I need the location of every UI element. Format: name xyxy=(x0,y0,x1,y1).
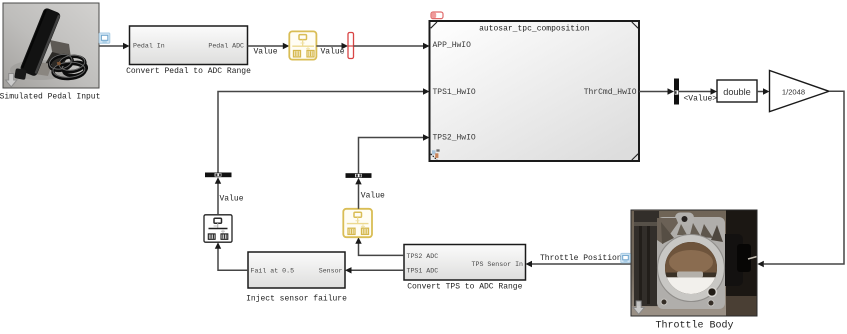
subsystem: Convert Pedal to ADC Range xyxy=(126,26,251,76)
svg-text:Value: Value xyxy=(361,191,385,200)
svg-text:1/2048: 1/2048 xyxy=(782,87,805,96)
wire: white adapter to bus creator 1 xyxy=(215,177,221,215)
svg-text:ThrCmd_HwIO: ThrCmd_HwIO xyxy=(584,88,637,97)
wire: Inject output to white adapter xyxy=(215,242,248,270)
bus creator 2 (horizontal bar) xyxy=(346,173,372,178)
wire: adapter to signal spec xyxy=(316,43,348,49)
svg-text:Pedal ADC: Pedal ADC xyxy=(208,42,244,49)
wire: Convert Pedal to adapter xyxy=(248,43,290,49)
wire: bus selector to double xyxy=(679,88,717,94)
svg-text:Value: Value xyxy=(321,48,345,57)
svg-text:TPS Sensor In: TPS Sensor In xyxy=(472,261,523,268)
wire: signal spec to APP_HwIO xyxy=(354,43,430,49)
wire: bus creator 2 to TPS2_HwIO xyxy=(359,134,430,173)
wire: pedal to Convert Pedal xyxy=(99,43,130,49)
svg-text:Fail at 0.5: Fail at 0.5 xyxy=(251,268,295,275)
wire: gain to throttle body xyxy=(757,91,844,267)
svg-text:Value: Value xyxy=(220,194,244,203)
svg-text:double: double xyxy=(723,87,751,97)
logging badge on pedal wire xyxy=(99,33,110,43)
throttle body photo block xyxy=(631,210,757,316)
svg-text:Value: Value xyxy=(254,48,278,57)
corner fold bottom-right xyxy=(632,154,638,160)
svg-text:TPS2_HwIO: TPS2_HwIO xyxy=(433,134,476,143)
adapter block (yellow) 2 xyxy=(343,209,372,237)
pedal photo block: Simulated Pedal Input xyxy=(3,3,99,88)
svg-text:TPS2 ADC: TPS2 ADC xyxy=(407,253,439,260)
adapter block (yellow) 1 xyxy=(289,31,316,59)
red breakpoint badge above model block xyxy=(431,12,443,19)
svg-text:Throttle Body: Throttle Body xyxy=(655,320,733,332)
model block: autosar_tpc_composition xyxy=(430,21,640,161)
subsystem: Inject sensor failure xyxy=(246,252,347,303)
svg-text:Convert Pedal to ADC Range: Convert Pedal to ADC Range xyxy=(126,67,251,76)
corner fold bottom-left (dashed) xyxy=(431,154,437,160)
gray arrow badge (pedal) xyxy=(6,74,17,87)
wire: TPS2 ADC to adapter 2 xyxy=(355,237,404,255)
svg-text:Inject sensor failure: Inject sensor failure xyxy=(246,294,347,303)
svg-text:Throttle Position: Throttle Position xyxy=(540,254,622,263)
wire: ThrCmd_HwIO to bus selector xyxy=(639,88,674,94)
svg-text:Pedal In: Pedal In xyxy=(133,42,165,49)
svg-text:autosar_tpc_composition: autosar_tpc_composition xyxy=(479,25,590,34)
bus creator 1 (horizontal bar) xyxy=(205,173,232,178)
svg-text:Sensor: Sensor xyxy=(319,268,343,275)
wire: throttle body to Convert TPS xyxy=(526,261,632,267)
svg-text:TPS1_HwIO: TPS1_HwIO xyxy=(433,88,476,97)
wire: TPS1 ADC to Inject sensor failure xyxy=(345,267,404,273)
corner fold top-left xyxy=(431,22,437,28)
bus selector bar xyxy=(674,79,679,105)
data type conversion block: double xyxy=(717,80,757,102)
svg-text:TPS1 ADC: TPS1 ADC xyxy=(407,268,439,275)
svg-text:APP_HwIO: APP_HwIO xyxy=(433,41,472,50)
logging badge on throttle wire xyxy=(621,253,630,262)
signal specification (red capsule) xyxy=(348,33,354,59)
tiny corner badge xyxy=(432,150,436,154)
gray arrow badge (throttle) xyxy=(633,301,644,314)
adapter block (white) xyxy=(204,215,232,242)
subsystem: Convert TPS to ADC Range xyxy=(404,245,526,292)
corner fold top-right xyxy=(632,22,638,28)
svg-text:<Value>: <Value> xyxy=(684,94,718,103)
gain block: 1/2048 xyxy=(770,71,830,112)
wire: double to gain xyxy=(757,88,770,94)
wire: bus creator 1 to TPS1_HwIO xyxy=(218,88,430,172)
wire: yellow adapter 2 to bus creator 2 xyxy=(355,178,361,209)
svg-text:Simulated Pedal Input: Simulated Pedal Input xyxy=(0,92,100,101)
svg-text:Convert TPS to ADC Range: Convert TPS to ADC Range xyxy=(407,282,522,291)
